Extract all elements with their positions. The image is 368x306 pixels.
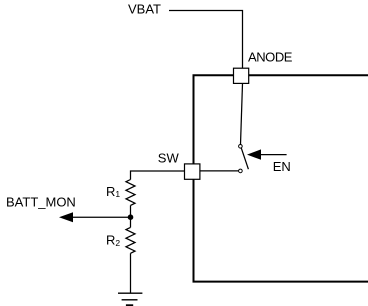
- BATT_MON arrow: [59, 212, 73, 222]
- switch S1 bottom contact: [239, 169, 243, 173]
- IC outline (load device block, clipped at right): [194, 75, 368, 281]
- node junction dot: [128, 214, 134, 220]
- svg-text:R1: R1: [106, 184, 120, 199]
- wire EN: [261, 154, 287, 156]
- EN control arrow: [247, 149, 261, 159]
- wire R2 to ground: [130, 253, 132, 293]
- svg-text:VBAT: VBAT: [128, 2, 161, 17]
- switch S1 blade (open): [241, 148, 248, 169]
- switch S1 top contact: [239, 145, 243, 149]
- svg-text:SW: SW: [158, 151, 180, 166]
- wire from ANODE pin down to switch contact: [241, 84, 243, 145]
- wire node to R2: [130, 217, 132, 227]
- ground symbol: [118, 292, 142, 294]
- wire from switch bottom contact to SW pin: [200, 170, 239, 172]
- wire from SW pin to resistor divider: [131, 171, 185, 180]
- pin box SW: [185, 164, 200, 179]
- svg-text:EN: EN: [273, 159, 291, 174]
- resistor R2: [126, 227, 135, 253]
- wire BATT_MON: [73, 216, 131, 218]
- svg-text:BATT_MON: BATT_MON: [6, 195, 76, 210]
- wire R1 to node: [130, 205, 132, 217]
- resistor R1: [126, 180, 135, 206]
- pin box ANODE: [234, 68, 249, 83]
- svg-text:ANODE: ANODE: [248, 49, 293, 64]
- wire VBAT horizontal+vertical to ANODE pin: [169, 11, 243, 69]
- svg-text:R2: R2: [106, 233, 120, 248]
